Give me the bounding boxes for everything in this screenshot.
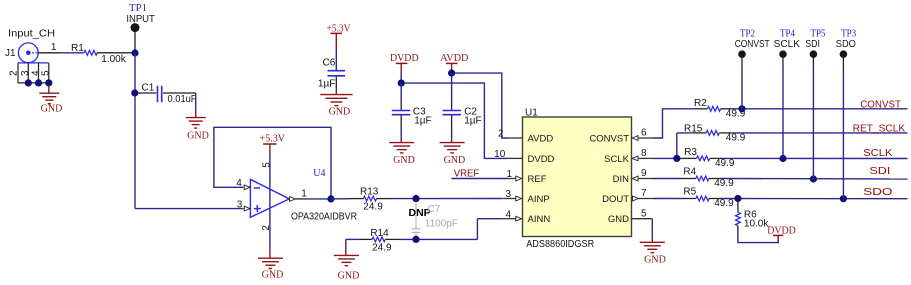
- pin 7 DOUT: [632, 188, 654, 201]
- svg-text:J1: J1: [5, 48, 16, 59]
- svg-text:CONVST: CONVST: [735, 39, 770, 50]
- pin 2 label: [261, 225, 272, 231]
- svg-text:R2: R2: [694, 98, 707, 109]
- svg-text:GND: GND: [644, 255, 666, 266]
- svg-text:AINP: AINP: [528, 194, 550, 205]
- svg-text:0.01uF: 0.01uF: [168, 94, 197, 105]
- wire +5.3V to C6: [335, 48, 337, 70]
- wire op-amp supply pins: [269, 154, 271, 251]
- pin 3 label: [237, 199, 243, 210]
- ground GND at R14: [334, 255, 359, 281]
- wire pin9 to R4: [653, 178, 683, 180]
- svg-text:6: 6: [641, 128, 647, 139]
- junction TP4 on SCLK: [779, 155, 786, 162]
- svg-text:49.9: 49.9: [714, 178, 734, 189]
- wire net RET_SCLK: [732, 132, 908, 134]
- wire TP5 to SDI: [812, 70, 814, 179]
- svg-text:5: 5: [641, 208, 647, 219]
- svg-text:SCLK: SCLK: [863, 148, 893, 159]
- svg-text:GND: GND: [393, 155, 415, 166]
- svg-text:AVDD: AVDD: [528, 133, 554, 144]
- wire U1 GND pin to ground: [651, 219, 653, 243]
- svg-text:GND: GND: [338, 270, 360, 281]
- wire R13 to AINP: [391, 198, 502, 200]
- pin 4 arrow: [244, 185, 250, 190]
- pin 5 GND: [632, 208, 653, 219]
- resistor R13: [331, 187, 391, 213]
- svg-text:C1: C1: [142, 83, 155, 94]
- capacitor C3: [392, 83, 432, 128]
- net label SCLK: [863, 148, 893, 159]
- svg-text:SDI: SDI: [805, 39, 820, 50]
- svg-text:8: 8: [641, 148, 647, 159]
- svg-text:GND: GND: [41, 103, 63, 114]
- wire C3 to ground: [400, 128, 402, 143]
- svg-text:1: 1: [51, 42, 57, 53]
- wire output to node: [306, 198, 331, 200]
- svg-text:CONVST: CONVST: [860, 100, 901, 111]
- svg-text:49.9: 49.9: [715, 158, 735, 169]
- power AVDD: [440, 53, 468, 71]
- svg-text:49.9: 49.9: [714, 198, 734, 209]
- ground GND at op-amp: [258, 258, 283, 280]
- power +5.3V at C6: [327, 23, 352, 48]
- junction C1 tap: [131, 89, 138, 96]
- svg-text:+5.3V: +5.3V: [327, 23, 352, 34]
- op-amp output pin: [290, 197, 306, 202]
- resistor R4: [683, 167, 735, 189]
- svg-text:7: 7: [641, 188, 647, 199]
- svg-text:10: 10: [494, 149, 506, 160]
- test point TP2: [735, 28, 770, 70]
- pin 3 arrow: [244, 206, 250, 211]
- test point TP5: [805, 28, 825, 70]
- svg-text:10.0k: 10.0k: [744, 219, 769, 230]
- junction J1 pin3: [25, 79, 32, 86]
- resistor R2: [694, 98, 746, 120]
- wire TP4 to SCLK: [782, 70, 784, 159]
- svg-text:3: 3: [237, 199, 243, 210]
- svg-text:9: 9: [641, 168, 647, 179]
- wire R14 to AINN: [399, 219, 502, 240]
- svg-text:GND: GND: [329, 107, 351, 118]
- op-amp U4: [250, 168, 357, 222]
- ground GND at C3: [389, 143, 415, 166]
- power +5.3V at op-amp: [260, 134, 286, 154]
- svg-text:5: 5: [262, 162, 273, 168]
- resistor R6: [736, 199, 770, 234]
- junction TP5 on SDI: [810, 175, 817, 182]
- svg-text:TP1: TP1: [129, 3, 147, 14]
- junction node INPUT: [131, 49, 138, 56]
- svg-text:U1: U1: [525, 107, 538, 118]
- svg-text:DVDD: DVDD: [528, 154, 555, 165]
- wire C2 to ground: [451, 128, 453, 143]
- svg-text:1100pF: 1100pF: [425, 218, 458, 229]
- svg-text:SCLK: SCLK: [774, 39, 801, 50]
- junction TP2 on CONVST: [738, 105, 745, 112]
- test point TP4: [774, 28, 801, 70]
- resistor R1: [60, 43, 135, 65]
- svg-text:R5: R5: [683, 187, 696, 198]
- wire SCLK riser to R15: [677, 133, 693, 159]
- ground GND at U1: [640, 242, 666, 265]
- svg-text:OPA320AIDBVR: OPA320AIDBVR: [291, 211, 357, 222]
- svg-text:1µF: 1µF: [464, 116, 481, 127]
- capacitor C6: [318, 58, 345, 90]
- pin 8 SCLK: [632, 148, 653, 161]
- pin 1 label: [301, 189, 307, 200]
- wire AVDD net: [452, 71, 508, 138]
- wire pin7 to R5: [653, 198, 685, 200]
- svg-text:CONVST: CONVST: [589, 133, 629, 144]
- wire pin6 to R2: [653, 109, 694, 138]
- svg-text:GND: GND: [262, 270, 284, 281]
- wire feedback loop: [214, 127, 331, 199]
- wire TP1 to node INPUT: [134, 44, 136, 53]
- net label SDO: [863, 187, 893, 198]
- wire C1 to ground: [195, 93, 197, 118]
- svg-text:DVDD: DVDD: [390, 53, 419, 64]
- junction DVDD: [398, 80, 405, 87]
- wire op-amp pin2 to ground: [269, 250, 271, 258]
- svg-text:RET_SCLK: RET_SCLK: [853, 123, 906, 134]
- pin 9 DIN: [632, 168, 653, 181]
- net label RET_SCLK: [853, 123, 906, 134]
- ground GND at C6: [320, 95, 352, 118]
- power DVDD: [390, 53, 419, 72]
- connector J1: [5, 29, 60, 83]
- svg-text:2: 2: [498, 129, 504, 140]
- svg-text:1µF: 1µF: [318, 79, 335, 90]
- power DVDD at R6: [767, 225, 796, 240]
- svg-text:INPUT: INPUT: [126, 14, 155, 25]
- svg-text:1: 1: [506, 169, 512, 180]
- pin 2 AVDD: [498, 129, 523, 140]
- svg-text:R4: R4: [683, 167, 696, 178]
- wire R6 to DVDD: [738, 233, 778, 243]
- svg-text:VREF: VREF: [454, 168, 480, 179]
- pin 1 REF: [506, 169, 521, 181]
- svg-text:GND: GND: [444, 155, 466, 166]
- pin 4 label: [236, 178, 242, 189]
- pin 10 DVDD: [494, 149, 522, 160]
- svg-text:4: 4: [505, 209, 511, 220]
- svg-text:2: 2: [9, 70, 20, 76]
- net label CONVST: [860, 100, 901, 111]
- svg-text:C7: C7: [428, 204, 441, 215]
- svg-text:DIN: DIN: [613, 174, 630, 185]
- svg-text:SDI: SDI: [869, 166, 890, 177]
- net label VREF: [454, 168, 480, 179]
- capacitor C1: [138, 83, 197, 105]
- svg-text:1µF: 1µF: [414, 116, 431, 127]
- ground GND at C2: [440, 143, 466, 166]
- svg-text:GND: GND: [608, 214, 629, 225]
- wire net CONVST: [732, 108, 908, 110]
- IC U1 ADS8860: [523, 107, 632, 250]
- junction R14 C7: [412, 236, 419, 243]
- ground wire at R14: [346, 239, 359, 255]
- test point TP1: [126, 3, 155, 44]
- svg-text:TP4: TP4: [780, 28, 795, 39]
- junction SCLK R15 tap: [673, 155, 680, 162]
- capacitor C2: [443, 73, 482, 128]
- net label SDI: [869, 166, 890, 177]
- wire pin8 to R3: [653, 157, 684, 159]
- svg-text:AINN: AINN: [528, 214, 551, 225]
- svg-text:24.9: 24.9: [363, 201, 383, 212]
- junction AINP node: [412, 195, 419, 202]
- ground GND at C1: [186, 118, 209, 142]
- wire DVDD net: [401, 73, 507, 159]
- svg-text:ADS8860IDGSR: ADS8860IDGSR: [526, 239, 594, 250]
- svg-text:1: 1: [301, 189, 307, 200]
- svg-text:1.00k: 1.00k: [101, 54, 126, 65]
- pin 5 label: [262, 162, 273, 168]
- wire net SCLK: [722, 157, 908, 159]
- wire net SDI: [721, 178, 908, 181]
- junction TP3 on SDO: [840, 195, 847, 202]
- wire TP2 to CONVST: [741, 70, 743, 109]
- svg-text:DOUT: DOUT: [602, 194, 629, 205]
- junction R6 on SDO: [734, 195, 741, 202]
- wire trunk INPUT down: [135, 53, 244, 209]
- svg-text:2: 2: [261, 225, 272, 231]
- svg-text:U4: U4: [313, 168, 325, 179]
- resistor R5: [683, 187, 734, 209]
- svg-text:GND: GND: [187, 131, 209, 142]
- svg-text:C6: C6: [323, 58, 336, 69]
- wire TP3 to SDO: [842, 70, 844, 199]
- svg-text:TP3: TP3: [841, 28, 856, 39]
- svg-text:TP5: TP5: [811, 28, 826, 39]
- svg-text:49.9: 49.9: [726, 133, 746, 144]
- wire VREF to REF: [452, 178, 508, 180]
- svg-text:SDO: SDO: [836, 39, 856, 50]
- wire net SDO: [721, 198, 908, 200]
- junction op-amp output: [327, 195, 334, 202]
- svg-text:SCLK: SCLK: [604, 154, 629, 165]
- svg-text:REF: REF: [528, 174, 547, 185]
- resistor R3: [684, 147, 735, 169]
- svg-text:+5.3V: +5.3V: [260, 134, 286, 145]
- svg-text:TP2: TP2: [740, 28, 755, 39]
- pin 6 CONVST: [632, 128, 653, 141]
- junction J1 pin4: [35, 79, 42, 86]
- test point TP3: [836, 28, 856, 70]
- capacitor C7 DNP: [409, 202, 458, 237]
- wire C6 to ground: [335, 89, 337, 95]
- ground GND at J1: [39, 85, 62, 114]
- svg-text:5: 5: [41, 70, 52, 76]
- pin 4 AINN: [502, 209, 522, 221]
- svg-text:24.9: 24.9: [372, 242, 392, 253]
- svg-text:AVDD: AVDD: [440, 53, 468, 64]
- junction J1 pin5: [45, 79, 52, 86]
- svg-text:SDO: SDO: [863, 187, 893, 198]
- pin 3 AINP: [502, 189, 522, 201]
- svg-text:R13: R13: [360, 187, 379, 198]
- svg-text:DVDD: DVDD: [767, 225, 796, 236]
- svg-text:R3: R3: [684, 147, 697, 158]
- svg-text:Input_CH: Input_CH: [8, 29, 55, 40]
- svg-text:3: 3: [505, 189, 511, 200]
- junction AVDD: [448, 70, 455, 77]
- resistor R14: [359, 228, 399, 254]
- resistor R15: [684, 124, 746, 144]
